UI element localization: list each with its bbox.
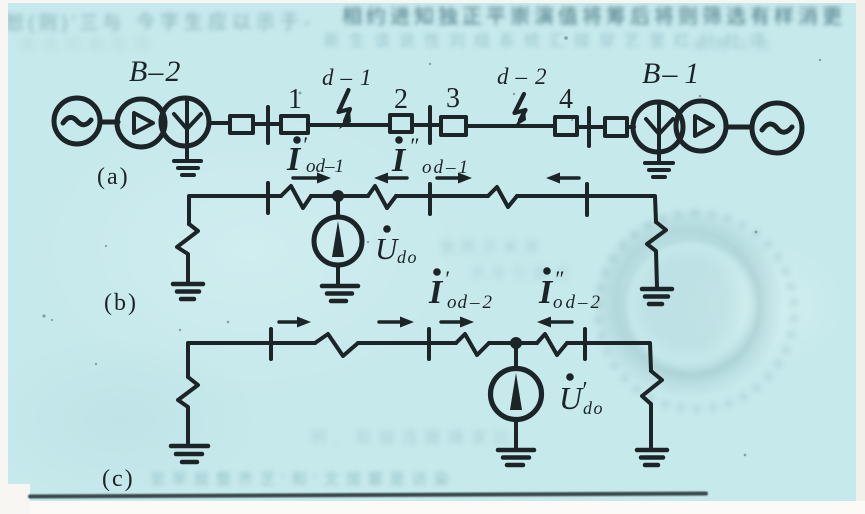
svg-text:(c): (c) [102, 466, 135, 492]
wire [726, 125, 751, 130]
resistor zigzag (c) 2 [456, 334, 489, 355]
bus tick left [266, 107, 270, 143]
label current İ″od-1 [391, 133, 468, 179]
svg-text:od–1: od–1 [306, 156, 344, 177]
wire [336, 265, 340, 284]
current arrow right (İ′od-2) [379, 317, 414, 328]
wire [412, 123, 441, 127]
wire bus (c) with left corner [188, 343, 315, 377]
svg-text:d–2: d–2 [497, 64, 547, 89]
svg-text:″: ″ [554, 266, 564, 291]
svg-text:od–2: od–2 [553, 292, 601, 313]
wire source stem (c) [514, 343, 518, 369]
wire [514, 419, 518, 448]
transformer B-1 wye winding [633, 102, 683, 152]
svg-text:′: ′ [444, 266, 450, 291]
fault d-1 lightning [339, 90, 352, 129]
wire bus (b) right with corner [517, 196, 656, 222]
resistor left (b) vertical zigzag [177, 224, 198, 283]
transformer B-2 delta winding [117, 99, 165, 147]
svg-text:′: ′ [302, 132, 308, 157]
wire [101, 120, 118, 125]
wire [396, 194, 488, 198]
wire [577, 125, 605, 129]
wire [253, 122, 281, 126]
transformer B-2 wye winding [161, 98, 209, 146]
current arrow left (İ″od-2) [537, 317, 572, 328]
wire [627, 125, 634, 129]
bus tick (c) mid [427, 329, 431, 359]
svg-text:I: I [286, 141, 302, 178]
resistor left (c) vertical zigzag [178, 377, 198, 443]
svg-text:I: I [428, 274, 444, 311]
bus tick right [587, 108, 591, 146]
fault d-2 lightning [515, 94, 527, 127]
generator G1 (right) [752, 103, 802, 153]
current arrow right (c left feed) [279, 317, 311, 328]
resistor zigzag (c) 1 [315, 334, 358, 356]
wire bus (c) right with corner [489, 343, 651, 370]
ground source (b) [322, 286, 358, 301]
source U̇do circle (b) [314, 217, 362, 265]
generator G2 (left) [54, 98, 100, 144]
ground left (c) [171, 446, 208, 462]
svg-text:do: do [397, 247, 418, 267]
svg-text:do: do [583, 398, 604, 418]
breaker box left (unnumbered) [230, 116, 253, 133]
resistor zigzag (b) 1 [281, 186, 311, 208]
label U̇do [375, 225, 418, 267]
svg-text:d–1: d–1 [322, 65, 372, 90]
label current İ′od-1 [286, 132, 344, 178]
svg-text:1: 1 [288, 84, 302, 115]
resistor right (c) vertical zigzag [642, 371, 662, 449]
ground right (b) [642, 289, 672, 304]
breaker 1 [281, 116, 308, 133]
svg-text:2: 2 [394, 84, 408, 115]
bus tick (c) left [269, 329, 273, 359]
node junction (c) fault point [510, 337, 522, 349]
wire [209, 121, 230, 125]
svg-text:B–2: B–2 [129, 55, 180, 88]
resistor zigzag (c) 3 [537, 334, 567, 355]
current arrow right (branch 2-3) [437, 173, 472, 184]
source U̇′do circle (c) [491, 369, 542, 420]
current arrow left (İ″od-1) [374, 173, 407, 184]
ground source (c) [498, 450, 534, 465]
bus tick (b) left [266, 183, 270, 213]
svg-text:4: 4 [559, 84, 573, 115]
svg-text:(a): (a) [97, 164, 130, 190]
bus tick mid [428, 107, 432, 143]
svg-text:B–1: B–1 [642, 57, 699, 90]
resistor right (b) vertical zigzag [647, 222, 666, 287]
transformer B-1 neutral ground [645, 151, 673, 177]
node junction (b) fault point [332, 190, 344, 202]
wire [466, 124, 555, 128]
label current İ′od-2 [428, 266, 493, 313]
wire [358, 341, 456, 345]
current arrow right (mid c) [441, 317, 474, 328]
svg-text:(b): (b) [104, 290, 138, 316]
bus tick (c) right [583, 329, 587, 359]
wire [308, 123, 390, 127]
ground right (c) [637, 450, 667, 465]
svg-text:3: 3 [446, 83, 460, 114]
label U̇′do [559, 373, 604, 418]
transformer B-2 neutral ground [174, 146, 201, 175]
transformer B-1 delta winding [676, 101, 726, 151]
wire source stem (b) [336, 196, 340, 217]
svg-text:I: I [538, 274, 554, 311]
svg-text:″: ″ [409, 133, 419, 158]
wire [311, 194, 368, 198]
current arrow right (İ′od-1) [293, 173, 331, 184]
svg-text:od–2: od–2 [447, 292, 493, 313]
bus tick (b) mid [428, 184, 432, 214]
breaker 3 [441, 117, 466, 135]
svg-text:I: I [391, 142, 407, 179]
resistor zigzag (b) 2 [368, 186, 396, 208]
page edges [0, 0, 865, 3]
resistor zigzag (b) 3 [488, 187, 517, 207]
breaker box right (unnumbered) [605, 118, 627, 136]
wire bus (b) with left corner [189, 196, 281, 224]
bus tick (b) right [585, 184, 589, 215]
current arrow left (right feed) [546, 173, 579, 184]
label current İ″od-2 [538, 266, 601, 313]
breaker 4 [555, 117, 577, 135]
ground left (b) [173, 284, 203, 299]
breaker 2 [390, 115, 412, 132]
